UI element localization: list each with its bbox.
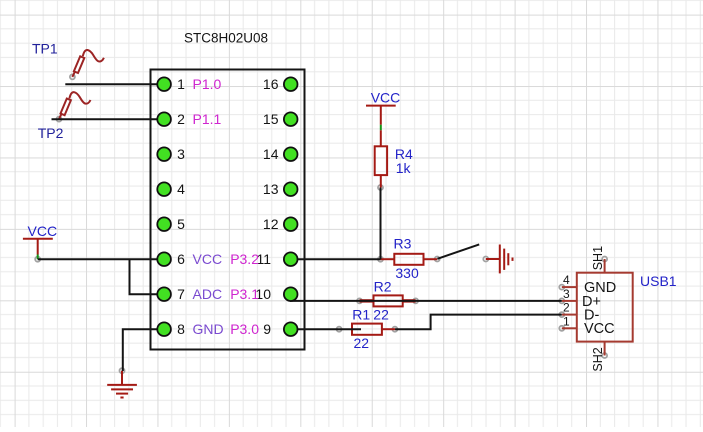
svg-text:1: 1 (563, 314, 570, 328)
pad ring R1 left (337, 327, 342, 332)
svg-text:16: 16 (263, 76, 279, 92)
svg-text:2: 2 (563, 301, 570, 315)
resistor R3 (381, 254, 438, 265)
svg-text:R1: R1 (352, 307, 370, 323)
pad ring R1 right (392, 327, 397, 332)
pin 15 (284, 112, 298, 126)
resistor R2 (360, 295, 416, 306)
USB pin numbers (563, 273, 570, 328)
svg-text:P1.0: P1.0 (193, 76, 222, 92)
wire pin 10 through R2 to USB pin 3 (290, 300, 562, 302)
svg-text:GND: GND (193, 321, 224, 337)
USB1 connector (562, 259, 633, 356)
svg-text:R3: R3 (394, 236, 412, 252)
svg-text:ADC: ADC (193, 286, 223, 302)
pin 6 (157, 252, 171, 266)
svg-text:USB1: USB1 (640, 273, 677, 289)
pin 1 (157, 77, 171, 91)
pad ring switch right (483, 257, 488, 262)
svg-text:TP2: TP2 (38, 125, 64, 141)
resistor R4 (375, 130, 387, 187)
pad ring R4 bottom junction (378, 185, 383, 190)
svg-text:P3.2: P3.2 (230, 251, 259, 267)
svg-text:12: 12 (263, 216, 279, 232)
pin 2 (157, 112, 171, 126)
wire pin 11 to junction (298, 258, 381, 260)
svg-text:13: 13 (263, 181, 279, 197)
svg-text:1k: 1k (396, 160, 412, 176)
wire TP1 to pin 1 (65, 83, 158, 85)
pin 10 (284, 287, 298, 301)
pad ring USB pin 2 (559, 312, 564, 317)
svg-text:P3.0: P3.0 (230, 321, 259, 337)
pad ring VCC left (35, 257, 40, 262)
pad ring R2 right (413, 298, 418, 303)
svg-text:1: 1 (177, 76, 185, 92)
svg-text:7: 7 (177, 286, 185, 302)
svg-text:3: 3 (177, 146, 185, 162)
svg-text:4: 4 (563, 273, 570, 287)
wire R4 to junction (380, 188, 382, 260)
svg-text:22: 22 (373, 307, 389, 323)
pad ring ground bottom (120, 368, 125, 373)
svg-text:22: 22 (354, 335, 370, 351)
pad ring R3 right (435, 257, 440, 262)
pin 4 (157, 182, 171, 196)
svg-text:3: 3 (563, 287, 570, 301)
svg-text:5: 5 (177, 216, 185, 232)
pad ring TP1 (70, 74, 75, 79)
svg-text:R2: R2 (374, 278, 392, 294)
ground (bottom, pin 8 net) (107, 371, 137, 398)
svg-text:9: 9 (263, 321, 271, 337)
pad ring USB pin 1 (559, 326, 564, 331)
IC pin circles right (284, 77, 298, 336)
svg-text:VCC: VCC (584, 321, 615, 337)
resistor R1 (352, 324, 395, 335)
svg-text:TP1: TP1 (32, 41, 58, 57)
pin 9 (284, 322, 298, 336)
pad ring SH1 (602, 257, 607, 262)
pin 12 (284, 217, 298, 231)
wire pin 9 into R1 (298, 328, 362, 330)
svg-text:P1.1: P1.1 (193, 111, 222, 127)
pin 7 (157, 287, 171, 301)
svg-text:SH1: SH1 (591, 246, 605, 270)
svg-text:330: 330 (395, 265, 419, 281)
svg-text:VCC: VCC (371, 90, 401, 106)
power flag VCC (left) (23, 239, 53, 255)
pad ring R2 left (357, 298, 362, 303)
svg-text:14: 14 (263, 146, 279, 162)
wire branch to pin 7 (130, 259, 159, 294)
svg-text:4: 4 (177, 181, 185, 197)
power flag VCC (top) (366, 106, 396, 125)
IC pin circles left (157, 77, 171, 336)
wire TP2 to pin 2 (52, 118, 159, 120)
pin 3 (157, 147, 171, 161)
svg-text:VCC: VCC (193, 251, 223, 267)
IC pin numbers right (255, 76, 278, 337)
pad ring USB pin 4 (559, 285, 564, 290)
pin 5 (157, 217, 171, 231)
pin 13 (284, 182, 298, 196)
earth ground (right of switch) (486, 245, 513, 274)
wire VCC to pin 6 (38, 258, 158, 260)
svg-text:15: 15 (263, 111, 279, 127)
svg-text:SH2: SH2 (591, 347, 605, 371)
wire pin 8 to ground (123, 329, 158, 371)
svg-text:2: 2 (177, 111, 185, 127)
pad ring USB pin 3 (559, 298, 564, 303)
svg-text:VCC: VCC (28, 223, 58, 239)
test point TP1 (72, 50, 104, 77)
pad ring SH2 (602, 353, 607, 358)
wire R1 to USB pin 2 (395, 315, 562, 330)
svg-text:P3.1: P3.1 (230, 286, 259, 302)
pin 14 (284, 147, 298, 161)
svg-text:8: 8 (177, 321, 185, 337)
pad ring TP2 (57, 117, 62, 122)
pin 11 (284, 252, 298, 266)
pad ring R3/R4/pin11 junction (378, 257, 383, 262)
USB inner labels (582, 280, 616, 337)
IC pin names (193, 76, 260, 337)
IC pin numbers left (177, 76, 185, 337)
pin 16 (284, 77, 298, 91)
svg-text:6: 6 (177, 251, 185, 267)
switch blade (437, 244, 479, 258)
pin 8 (157, 322, 171, 336)
test point TP2 (59, 92, 91, 119)
svg-text:STC8H02U08: STC8H02U08 (184, 31, 268, 46)
IC STC8H02U08 body (151, 70, 305, 350)
